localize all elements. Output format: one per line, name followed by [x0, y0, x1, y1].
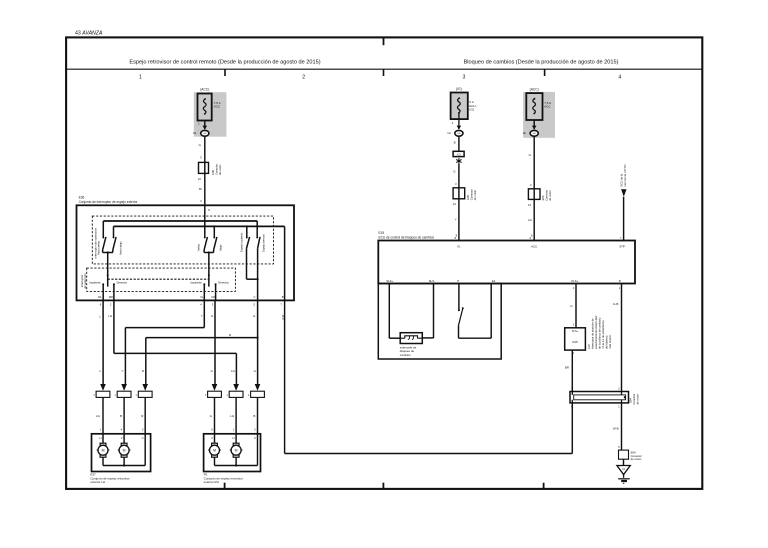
svg-text:E19: E19 [379, 231, 385, 235]
svg-text:Derecha: Derecha [117, 281, 128, 285]
svg-text:H: H [99, 436, 101, 440]
svg-text:del tablero): del tablero) [605, 335, 609, 349]
svg-text:Espejo derecho: Espejo derecho [262, 233, 266, 252]
svg-text:LG: LG [528, 218, 533, 222]
svg-text:cambios: cambios [400, 353, 411, 357]
svg-text:VL: VL [200, 295, 204, 299]
svg-text:H: H [233, 436, 235, 440]
svg-text:3: 3 [462, 75, 465, 81]
svg-text:SLS-: SLS- [429, 279, 435, 283]
svg-text:10: 10 [198, 177, 202, 181]
svg-text:1H: 1H [447, 131, 450, 135]
svg-text:E06: E06 [211, 170, 215, 175]
svg-text:VR: VR [211, 295, 215, 299]
svg-text:1E: 1E [523, 131, 526, 135]
svg-text:<A la luz de advertencia: <A la luz de advertencia [601, 320, 605, 349]
svg-text:Bloqueo de cambios (Desde la p: Bloqueo de cambios (Desde la producción … [464, 59, 619, 65]
svg-text:de unión: de unión [636, 394, 640, 405]
svg-text:1: 1 [139, 75, 142, 81]
svg-text:Conector: Conector [215, 164, 219, 175]
svg-text:Arriba: Arriba [197, 244, 201, 251]
svg-text:K05: K05 [572, 340, 578, 344]
svg-text:ACC: ACC [531, 245, 537, 249]
svg-text:2: 2 [302, 75, 305, 81]
svg-text:C: C [142, 436, 144, 440]
svg-text:14: 14 [453, 202, 457, 206]
svg-text:C: C [254, 436, 256, 440]
svg-text:P: P [457, 279, 459, 283]
svg-text:Conector: Conector [632, 393, 636, 404]
svg-text:exterior RH: exterior RH [204, 480, 219, 484]
svg-text:(ACC): (ACC) [530, 88, 539, 92]
svg-text:M: M [102, 449, 105, 453]
svg-text:B: B [454, 141, 456, 145]
svg-text:BR: BR [565, 365, 569, 369]
svg-text:carrocería <27-B>: carrocería <27-B> [623, 164, 627, 187]
svg-text:Izquierda: Izquierda [89, 281, 101, 285]
svg-text:A26: A26 [457, 153, 462, 156]
svg-text:(IG): (IG) [456, 87, 462, 91]
svg-text:IG2: IG2 [469, 107, 474, 111]
svg-text:C: C [254, 295, 256, 299]
svg-text:Conector: Conector [469, 189, 473, 200]
svg-text:ACC: ACC [544, 105, 551, 109]
svg-text:E05: E05 [466, 195, 470, 200]
svg-text:LG: LG [108, 314, 113, 318]
svg-text:E36: E36 [79, 196, 85, 200]
svg-text:V: V [121, 436, 123, 440]
svg-text:ACC: ACC [214, 105, 221, 109]
svg-text:Y: Y [201, 314, 203, 318]
svg-text:Hacia abajo: Hacia abajo [118, 241, 122, 255]
svg-text:Espejo izquierdo: Espejo izquierdo [240, 232, 244, 252]
svg-text:13: 13 [528, 203, 532, 207]
svg-text:de la palanca de cambios): de la palanca de cambios) [598, 318, 602, 349]
svg-text:KLS+: KLS+ [572, 330, 579, 333]
svg-text:de unión: de unión [473, 189, 477, 200]
svg-text:KLS+: KLS+ [571, 279, 578, 283]
svg-text:LG: LG [230, 414, 235, 418]
svg-text:E05: E05 [541, 195, 545, 200]
svg-text:de selección: de selección [83, 273, 87, 288]
svg-text:ECU de control de bloqueo de c: ECU de control de bloqueo de cambios [379, 236, 435, 240]
svg-text:G-B: G-B [613, 302, 618, 306]
svg-text:Hacia arriba: Hacia arriba [96, 240, 100, 255]
svg-text:E2: E2 [492, 279, 496, 283]
svg-text:43 AVANZA: 43 AVANZA [75, 31, 103, 37]
svg-text:M: M [123, 449, 126, 453]
svg-text:Abajo: Abajo [218, 244, 222, 251]
svg-text:de unión: de unión [548, 190, 552, 201]
svg-text:Derecha: Derecha [218, 281, 229, 285]
svg-text:R: R [619, 279, 621, 283]
svg-text:Conjunto de interruptor de esp: Conjunto de interruptor de espejo exteri… [79, 200, 139, 204]
svg-text:4: 4 [618, 75, 621, 81]
svg-text:B: B [120, 414, 122, 418]
svg-text:1E: 1E [193, 131, 196, 135]
svg-text:STP: STP [619, 244, 625, 248]
svg-text:Izquierda: Izquierda [190, 281, 202, 285]
svg-text:SLS+: SLS+ [386, 279, 393, 283]
svg-text:Y: Y [455, 217, 457, 221]
svg-text:Espejo retrovisor de control r: Espejo retrovisor de control remoto (Des… [129, 59, 320, 65]
svg-text:(ACC): (ACC) [200, 88, 209, 92]
svg-text:de unión: de unión [218, 164, 222, 175]
svg-text:Y: Y [121, 369, 123, 373]
svg-text:C37: C37 [587, 344, 591, 349]
svg-text:Br: Br [199, 187, 202, 191]
svg-text:ML: ML [98, 295, 102, 299]
svg-text:<del motor>: <del motor> [608, 334, 612, 349]
svg-text:LG: LG [231, 369, 236, 373]
svg-text:W-B: W-B [613, 427, 619, 431]
svg-text:D04: D04 [629, 398, 633, 403]
svg-text:B: B [253, 414, 255, 418]
svg-text:exterior LH: exterior LH [90, 480, 105, 484]
svg-text:estacionamiento (interruptor: estacionamiento (interruptor [594, 315, 598, 349]
svg-text:Conector: Conector [545, 190, 549, 201]
svg-text:M: M [213, 449, 216, 453]
svg-text:LG: LG [96, 414, 101, 418]
svg-text:de unión: de unión [631, 457, 642, 461]
svg-text:Interruptor de posición de: Interruptor de posición de [591, 318, 595, 349]
svg-text:V: V [211, 436, 213, 440]
svg-text:B: B [282, 295, 284, 299]
svg-text:MR: MR [109, 295, 113, 299]
svg-text:M: M [235, 449, 238, 453]
